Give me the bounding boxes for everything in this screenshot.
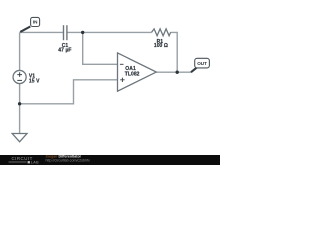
svg-text:15 V: 15 V bbox=[29, 79, 40, 85]
svg-text:OUT: OUT bbox=[197, 61, 207, 66]
svg-text:CIRCUIT: CIRCUIT bbox=[12, 156, 33, 161]
svg-text:IN: IN bbox=[33, 20, 38, 25]
flag IN pointer bbox=[20, 27, 30, 32]
ground bbox=[12, 134, 27, 142]
voltage source V1 bbox=[13, 70, 40, 84]
capacitor C1 bbox=[64, 25, 67, 40]
op-amp inverting pin mark bbox=[120, 63, 124, 65]
wire node A down to op-amp inverting input bbox=[83, 32, 118, 64]
flag IN box bbox=[31, 17, 40, 26]
svg-text:100 Ω: 100 Ω bbox=[154, 43, 168, 49]
output node junction dot bbox=[176, 71, 179, 74]
wire left vertical IN to V1 bbox=[19, 32, 21, 70]
wire V1 bottom to ground bbox=[19, 84, 21, 134]
svg-text:47 µF: 47 µF bbox=[58, 47, 71, 53]
wire op-amp output to OUT bbox=[156, 71, 191, 73]
node A junction dot (after C1) bbox=[81, 31, 84, 34]
wire node B to op-amp non-inverting input bbox=[20, 80, 118, 104]
svg-text:LAB: LAB bbox=[31, 161, 39, 165]
resistor R1 bbox=[152, 29, 171, 36]
svg-text:TL082: TL082 bbox=[125, 71, 140, 77]
node B junction dot (V1 / ground / + input) bbox=[18, 102, 21, 105]
op-amp non-inverting pin mark bbox=[120, 78, 124, 82]
flag OUT pointer bbox=[191, 68, 197, 73]
op-amp OA1 bbox=[118, 53, 157, 91]
V1 labels bbox=[29, 73, 40, 84]
wire C1 right to R1 left bbox=[67, 31, 152, 33]
flag OUT box bbox=[195, 58, 210, 68]
wire IN corner to C1 left bbox=[20, 31, 64, 33]
op-amp labels bbox=[125, 66, 140, 78]
svg-text:http://circuitlab.com/c2sbhfx: http://circuitlab.com/c2sbhfx bbox=[46, 158, 91, 162]
capacitor C1 labels bbox=[58, 43, 71, 53]
wire R1 right to output node (feedback) bbox=[170, 32, 177, 72]
footer bar bbox=[0, 155, 220, 165]
footer caption line 1 bbox=[46, 154, 91, 162]
V1 minus mark bbox=[17, 79, 22, 81]
CircuitLab logo bbox=[9, 156, 40, 165]
V1 plus mark bbox=[17, 72, 22, 77]
resistor R1 labels bbox=[154, 39, 168, 49]
